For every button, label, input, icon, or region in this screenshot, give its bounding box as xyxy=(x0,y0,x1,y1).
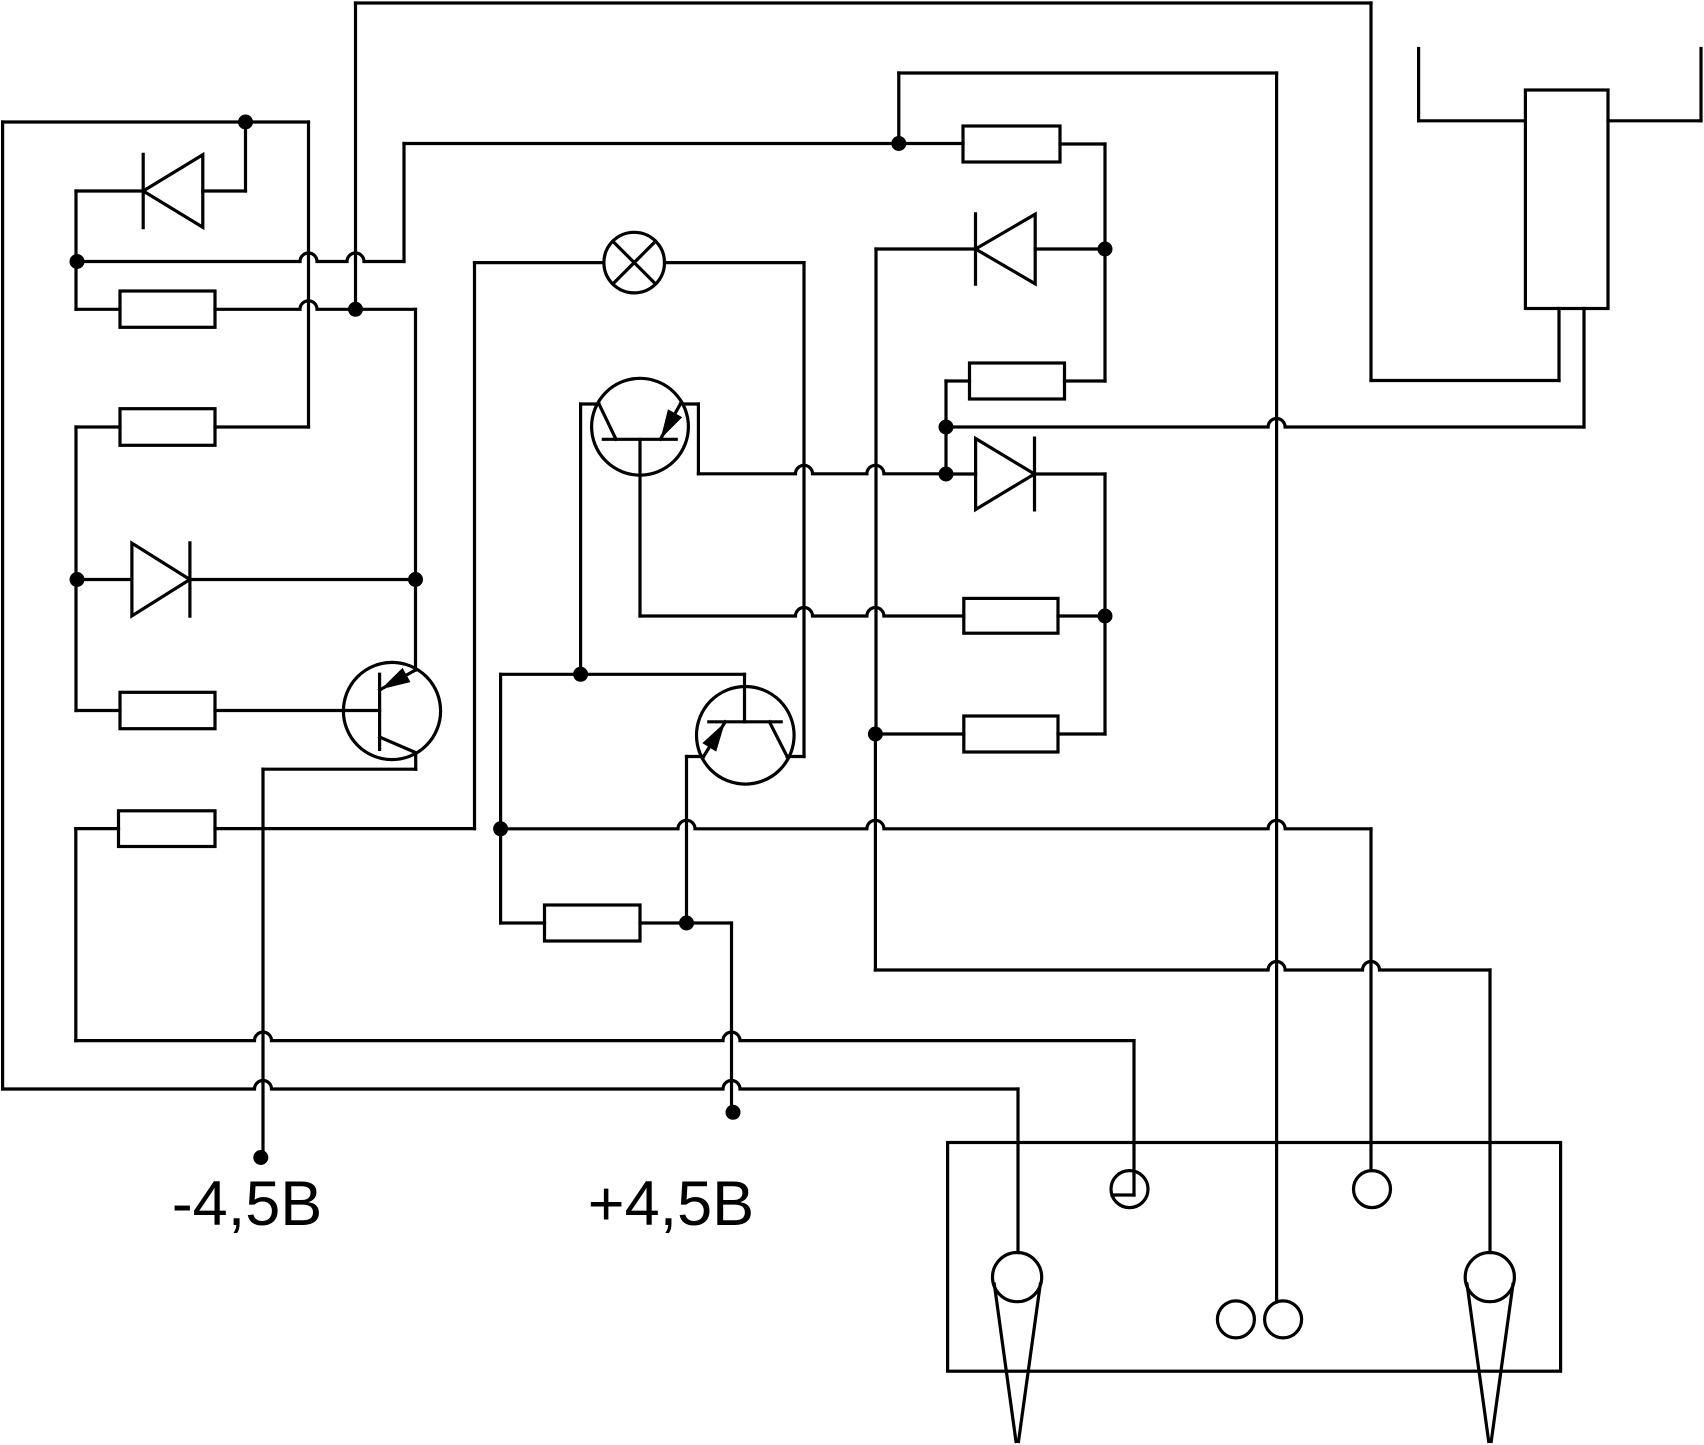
node junction xyxy=(1098,609,1113,624)
wire xyxy=(665,261,805,264)
wire xyxy=(74,427,77,711)
transistor VT1 collector xyxy=(380,737,416,753)
terminal -4,5V xyxy=(253,1150,268,1165)
transistor VT3 xyxy=(697,687,795,785)
wire xyxy=(499,674,502,923)
wire xyxy=(899,71,1277,74)
wire xyxy=(1417,49,1420,121)
resistor R8 xyxy=(545,905,641,941)
node junction xyxy=(891,136,906,151)
wire xyxy=(190,578,416,581)
wire xyxy=(203,189,246,192)
wire xyxy=(1060,142,1105,145)
wire xyxy=(1557,309,1560,381)
wire xyxy=(1103,474,1106,734)
transistor VT3 emitter xyxy=(704,722,726,757)
wire xyxy=(501,921,545,924)
wire xyxy=(1488,970,1491,1253)
wire xyxy=(875,962,1490,971)
wire xyxy=(685,757,688,924)
wire xyxy=(1275,73,1278,1302)
node junction xyxy=(70,254,85,269)
wire xyxy=(74,829,77,1041)
diode VD2 xyxy=(132,543,190,616)
wire xyxy=(402,144,405,262)
wire xyxy=(946,472,976,475)
wire xyxy=(1065,379,1106,382)
wire xyxy=(638,439,641,616)
lamp HL1 xyxy=(604,232,665,293)
wire xyxy=(414,753,417,770)
svg-text:-4,5В: -4,5В xyxy=(172,1169,323,1239)
wire xyxy=(215,301,416,310)
wire xyxy=(640,921,732,924)
wire xyxy=(897,73,900,144)
wire xyxy=(1035,472,1106,475)
resistor R7 xyxy=(119,811,216,847)
wire xyxy=(944,381,947,474)
resistor R5 xyxy=(964,598,1058,633)
wire xyxy=(354,3,357,309)
node junction xyxy=(573,667,588,682)
transistor VT1 xyxy=(343,662,440,759)
wire xyxy=(697,404,700,474)
wire xyxy=(77,253,404,262)
relay K1 xyxy=(1525,90,1608,309)
wire xyxy=(414,309,417,579)
node junction xyxy=(939,467,954,482)
wire xyxy=(76,709,120,712)
socket pin 2 xyxy=(1354,1171,1391,1208)
wire xyxy=(1103,144,1106,381)
diode VD1 xyxy=(143,155,203,228)
wire xyxy=(404,142,963,145)
diode VD4 xyxy=(976,439,1035,510)
resistor R3 xyxy=(963,126,1060,162)
resistor R2 xyxy=(120,409,215,446)
probe right needle xyxy=(1467,1284,1489,1442)
wire xyxy=(475,261,604,264)
wire xyxy=(307,122,310,427)
node junction xyxy=(679,916,694,931)
wire xyxy=(76,189,143,192)
node junction xyxy=(348,302,363,317)
wire xyxy=(730,923,733,1112)
transistor VT2 collector xyxy=(599,404,616,439)
wire xyxy=(501,673,745,676)
wire xyxy=(1016,1089,1019,1253)
wire xyxy=(76,1032,1134,1041)
wire xyxy=(215,827,475,830)
wire xyxy=(414,580,417,671)
resistor R4 xyxy=(970,363,1065,399)
transistor VT1 base bar xyxy=(378,674,381,749)
transistor VT1 emitter xyxy=(380,670,416,690)
wire xyxy=(1369,829,1372,1171)
transistor VT3 base lead xyxy=(743,674,746,722)
wire xyxy=(215,425,309,428)
wire xyxy=(76,425,120,428)
wire xyxy=(876,247,976,250)
wire xyxy=(261,769,264,1157)
wire xyxy=(356,1,1372,4)
socket pin 1 contact xyxy=(1112,1193,1134,1196)
wire xyxy=(3,1081,1018,1090)
wire xyxy=(1035,247,1105,250)
wire xyxy=(640,608,964,617)
wire xyxy=(1419,119,1526,122)
socket pair A xyxy=(1217,1301,1254,1338)
diode VD3 xyxy=(976,214,1036,284)
wire xyxy=(802,263,805,757)
wire xyxy=(874,734,877,970)
node junction xyxy=(868,727,883,742)
node junction xyxy=(70,572,85,587)
resistor R1 xyxy=(120,291,215,327)
wire xyxy=(215,709,380,712)
socket pin 1 xyxy=(1111,1171,1148,1208)
wire xyxy=(501,820,1371,829)
wire xyxy=(1132,1041,1135,1195)
wire xyxy=(76,827,119,830)
wire xyxy=(263,768,416,771)
resistor R6 xyxy=(964,716,1058,752)
wire xyxy=(77,578,132,581)
wire xyxy=(1582,309,1585,428)
wire xyxy=(1371,379,1559,382)
wire xyxy=(874,249,877,734)
wire xyxy=(3,120,309,123)
wire xyxy=(76,308,120,311)
transistor VT2 emitter xyxy=(660,404,680,439)
wire xyxy=(1,122,4,1089)
wire xyxy=(1608,119,1701,122)
node junction xyxy=(939,420,954,435)
wire xyxy=(579,404,582,674)
transistor VT2 base bar xyxy=(603,438,676,441)
wire xyxy=(875,732,963,735)
probe left needle xyxy=(994,1284,1016,1442)
wire xyxy=(1369,3,1372,381)
wire xyxy=(473,263,476,829)
probe right xyxy=(1465,1253,1514,1302)
wire xyxy=(946,419,1584,428)
transistor VT2 xyxy=(592,378,689,475)
wire xyxy=(1699,49,1702,121)
node junction xyxy=(238,115,253,130)
wire xyxy=(698,465,946,474)
wire xyxy=(74,191,77,309)
terminal +4,5V xyxy=(726,1105,741,1120)
resistor R9 xyxy=(120,692,215,728)
transistor VT3 collector xyxy=(769,722,787,757)
node junction xyxy=(1098,242,1113,257)
svg-text:+4,5В: +4,5В xyxy=(588,1169,754,1239)
wire xyxy=(1058,732,1105,735)
node junction xyxy=(493,821,508,836)
node junction xyxy=(408,572,423,587)
wire xyxy=(946,379,970,382)
probe left xyxy=(993,1253,1042,1302)
wire xyxy=(244,122,247,191)
connector box xyxy=(948,1143,1561,1372)
wire xyxy=(1058,614,1105,617)
transistor VT3 base bar xyxy=(709,720,781,723)
socket pair B xyxy=(1265,1301,1302,1338)
